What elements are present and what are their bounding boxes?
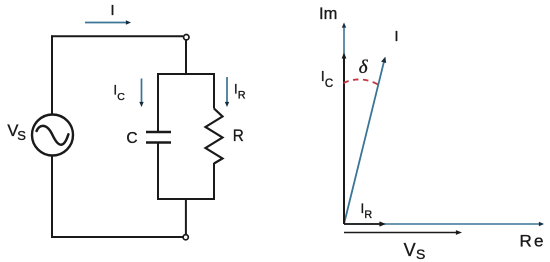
- vector IC (black phasor up): [342, 53, 347, 225]
- wire parallel block top: [158, 74, 214, 132]
- svg-text:Re: Re: [520, 231, 544, 250]
- svg-text:R: R: [233, 126, 244, 145]
- arrow I (top, blue): [85, 20, 131, 24]
- svg-text:Im: Im: [319, 5, 337, 23]
- svg-text:S: S: [17, 128, 26, 143]
- wire top horizontal: [51, 35, 183, 37]
- wire node to parallel block: [185, 40, 187, 75]
- wire bottom horizontal: [51, 236, 183, 238]
- axis Im (vertical, blue): [342, 23, 346, 225]
- svg-text:V: V: [404, 240, 416, 260]
- resistor R: [206, 109, 223, 164]
- wire block to bottom node: [185, 198, 187, 234]
- axis Re (horizontal, blue): [344, 222, 544, 226]
- svg-text:C: C: [126, 130, 137, 147]
- wire parallel block bottom: [158, 143, 214, 200]
- svg-text:R: R: [238, 90, 246, 102]
- voltage source VS: [32, 115, 73, 156]
- wire left vertical upper: [51, 35, 53, 114]
- vector I (blue phasor): [344, 57, 386, 224]
- svg-text:R: R: [364, 209, 372, 221]
- vector IR (black phasor right): [344, 221, 386, 226]
- svg-text:I: I: [111, 3, 115, 19]
- svg-text:I: I: [394, 28, 398, 45]
- arrow IC (blue, down): [139, 79, 143, 108]
- wire left vertical lower: [51, 156, 53, 238]
- svg-text:C: C: [325, 78, 333, 90]
- capacitor C: [146, 132, 171, 143]
- arrow VS (black, below Re axis): [344, 230, 462, 235]
- arrow IR (blue, down): [225, 77, 229, 107]
- svg-text:δ: δ: [359, 57, 369, 78]
- svg-text:C: C: [117, 91, 125, 103]
- angle delta arc (red dashed): [344, 79, 380, 85]
- node bottom terminal: [183, 235, 188, 240]
- node top terminal: [184, 35, 189, 40]
- svg-text:S: S: [416, 246, 425, 262]
